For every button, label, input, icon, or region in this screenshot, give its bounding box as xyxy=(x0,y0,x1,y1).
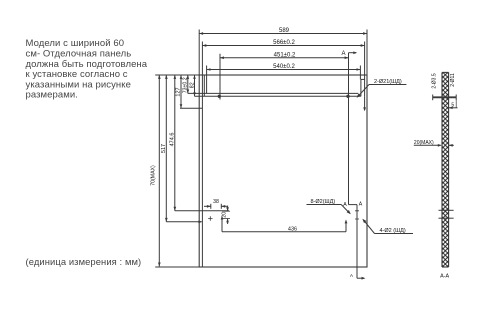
extension line right 566 xyxy=(364,42,366,76)
dimension 20 label xyxy=(222,212,228,218)
inner right cap top xyxy=(361,78,365,80)
label 2-O11 xyxy=(450,73,456,87)
hole cross jog upper xyxy=(355,209,359,213)
section label A bottom-right xyxy=(359,201,363,207)
svg-text:474.6: 474.6 xyxy=(169,133,175,147)
leader 8-O2 line xyxy=(307,205,351,215)
extension line 517 xyxy=(166,221,202,224)
dimension 589 line xyxy=(199,32,367,35)
section bar outline xyxy=(442,72,449,267)
dimension 474.6 line xyxy=(174,75,177,211)
label 8-O2 xyxy=(311,199,336,205)
svg-text:540±0.2: 540±0.2 xyxy=(273,64,295,70)
extension line left 566 xyxy=(201,42,203,76)
dimension 127 label xyxy=(176,87,182,96)
svg-text:38: 38 xyxy=(213,199,219,205)
section cut line A (upper) xyxy=(348,53,350,205)
svg-text:(единица измерения : мм): (единица измерения : мм) xyxy=(26,256,142,267)
hole dot left xyxy=(218,95,221,98)
panel bottom edge extension to left dims xyxy=(155,266,199,268)
leader 2-O21 label xyxy=(374,79,402,85)
dimension 451 line xyxy=(220,56,349,59)
section jog horizontal xyxy=(349,204,358,206)
screw end tick xyxy=(455,95,457,101)
svg-text:A: A xyxy=(350,273,353,278)
extension line 127 xyxy=(180,107,202,109)
note: units legend xyxy=(26,256,142,267)
panel outline xyxy=(199,75,367,267)
inner right cap line xyxy=(360,79,362,96)
dimension 38 ticks xyxy=(211,204,222,209)
leader 4-O2 line xyxy=(362,219,413,234)
dimension 5 label xyxy=(451,102,454,108)
dimension 70(MAX) label xyxy=(150,165,156,186)
section screw trace lower xyxy=(439,217,454,219)
dimension 436 line xyxy=(222,231,346,233)
dimension 517 line xyxy=(165,75,168,222)
dimension 38 label xyxy=(213,199,219,205)
dimension 70(MAX) line xyxy=(158,75,161,266)
screw head tick xyxy=(432,95,434,101)
svg-text:566±0.2: 566±0.2 xyxy=(273,40,295,46)
dimension 436 riser left xyxy=(221,216,224,232)
note: model width text block xyxy=(26,38,148,100)
dimension 82 line xyxy=(193,75,196,96)
hole cross bottom-left xyxy=(208,216,212,220)
svg-text:70(MAX): 70(MAX) xyxy=(150,165,156,186)
section bar hatch xyxy=(442,72,449,267)
extension line left 451 to hole xyxy=(219,54,221,100)
extension line left 589 xyxy=(198,30,200,76)
section arrow bottom xyxy=(357,277,365,280)
svg-text:82: 82 xyxy=(189,82,195,88)
dimension 566 label xyxy=(273,40,295,46)
dimension 566 line xyxy=(202,44,364,47)
svg-text:517: 517 xyxy=(161,144,167,153)
panel top edge extension to left dims xyxy=(155,74,199,76)
inner right arrow stub xyxy=(363,96,366,111)
inner left cap line xyxy=(203,75,205,96)
extension line left 540 xyxy=(206,66,208,94)
dimension 20MAX right arrow xyxy=(449,144,454,147)
dimension 73±0.2 line xyxy=(187,75,190,93)
bracket lower line xyxy=(195,95,361,97)
hole cross jog lower xyxy=(355,217,359,221)
svg-text:127: 127 xyxy=(176,87,182,96)
dimension 20 ticks xyxy=(222,211,230,218)
dimension 540 label xyxy=(273,64,295,70)
svg-text:589: 589 xyxy=(279,28,290,34)
dimension 127 line xyxy=(180,75,183,108)
svg-text:2-Ø11: 2-Ø11 xyxy=(450,73,456,87)
section label A bottom-left xyxy=(343,202,347,208)
dimension 540 line xyxy=(207,68,361,71)
svg-text:2-Ø21(ШД): 2-Ø21(ШД) xyxy=(374,79,402,85)
section label A top xyxy=(341,51,345,57)
label A-A xyxy=(440,274,449,280)
label 2-O3.5 xyxy=(431,73,437,89)
svg-text:436: 436 xyxy=(288,226,297,232)
svg-text:A: A xyxy=(359,201,363,207)
section screw trace upper xyxy=(439,209,454,211)
svg-text:451±0.2: 451±0.2 xyxy=(274,52,296,58)
section cut line A (lower) xyxy=(356,205,358,279)
svg-text:5: 5 xyxy=(451,102,454,108)
hole dot right xyxy=(346,95,349,98)
dimension 589 label xyxy=(279,28,290,34)
leader 2-O21 line xyxy=(357,85,407,98)
label 4-O2 xyxy=(380,228,406,234)
section label A bottom xyxy=(350,273,353,278)
screw shaft xyxy=(433,96,457,98)
dimension 73±0.2 label xyxy=(183,77,189,93)
dimension 82 label xyxy=(189,82,195,88)
dimension 436 riser right xyxy=(345,220,348,232)
bracket upper line xyxy=(188,92,358,94)
dimension 517 label xyxy=(161,144,167,153)
inner left line xyxy=(201,75,203,267)
section arrow top xyxy=(349,51,358,54)
dimension 451 label xyxy=(274,52,296,58)
svg-text:73±0.2: 73±0.2 xyxy=(183,77,189,93)
dimension 20MAX label xyxy=(414,140,434,146)
dimension 5 line xyxy=(449,100,458,109)
dimension 474.6 label xyxy=(169,133,175,147)
svg-text:4-Ø2 (ШД): 4-Ø2 (ШД) xyxy=(380,228,406,234)
svg-text:A: A xyxy=(341,51,345,57)
svg-text:8-Ø2(ШД): 8-Ø2(ШД) xyxy=(311,199,336,205)
dimension 38 line xyxy=(204,205,228,208)
extension line right 540 xyxy=(359,66,361,80)
dimension 436 label xyxy=(288,226,297,232)
svg-text:2-Ø3.5: 2-Ø3.5 xyxy=(431,73,437,89)
dimension 20MAX leader xyxy=(414,144,442,147)
extension line right 589 xyxy=(366,30,368,76)
inner right line xyxy=(364,75,366,96)
svg-text:размерами.: размерами. xyxy=(26,90,78,101)
svg-text:A-A: A-A xyxy=(440,274,449,280)
extension line 474.6 xyxy=(175,210,229,212)
dimension 20 line xyxy=(226,206,229,224)
